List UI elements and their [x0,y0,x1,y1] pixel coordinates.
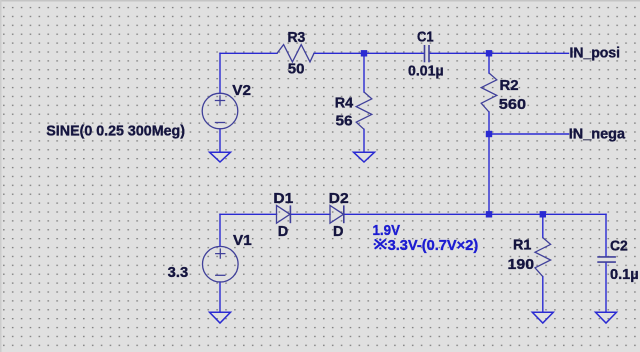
svg-text:SINE(0 0.25 300Meg): SINE(0 0.25 300Meg) [46,123,185,139]
wire IN_nega [489,133,569,135]
wire D1 cathode to D2 anode [290,213,330,215]
svg-text:C1: C1 [417,29,434,45]
svg-text:50: 50 [288,62,305,78]
wire R2 top lead [488,53,490,73]
svg-text:V1: V1 [233,233,252,249]
node junction IN_nega at R2 bottom [486,131,492,137]
wire R1 bottom lead to ground [542,277,544,312]
wire V1 top lead [219,214,221,246]
capacitor C2 plates [597,256,616,258]
ground below V1 [210,312,231,323]
V2 minus sign [215,122,225,124]
wire D2 cathode to C2 corner [344,213,606,215]
diode D1 cathode bar [289,205,291,223]
wire R4 bottom lead to ground [363,129,365,152]
capacitor C1 plates [424,45,426,62]
svg-text:R1: R1 [513,238,531,254]
node junction on top wire at R2 [486,50,492,56]
ground below V2 [210,152,231,162]
svg-text:D1: D1 [273,191,293,207]
ground below C2 [596,312,617,323]
svg-text:0.01µ: 0.01µ [408,64,444,80]
svg-text:190: 190 [508,257,535,273]
svg-text:1.9V: 1.9V [373,223,401,239]
wire V2 top to R3 [220,52,277,54]
resistor R1 zigzag [535,238,551,277]
resistor R4 zigzag [356,92,372,129]
V2 plus sign [215,95,225,105]
svg-text:IN_nega: IN_nega [569,127,626,143]
svg-text:R2: R2 [500,78,519,94]
wire V2 bottom lead to ground [219,129,221,153]
svg-text:560: 560 [499,97,526,113]
wire C1 right plate to IN_posi [430,52,569,54]
svg-text:C2: C2 [610,238,628,254]
svg-text:3.3: 3.3 [168,265,189,281]
svg-text:56: 56 [336,114,353,130]
svg-text:3.3V-(0.7V×2): 3.3V-(0.7V×2) [388,238,479,254]
resistor R2 zigzag [481,73,497,112]
svg-text:R3: R3 [288,30,306,46]
svg-text:D: D [333,224,343,240]
resistor R3 zigzag [277,45,314,62]
voltage source V1 circle [203,246,239,282]
wire V1 bottom lead to ground [219,282,221,312]
V1 plus sign [215,248,225,258]
reference mark (kome) drawn as shape [374,239,387,250]
V1 minus sign [215,274,225,276]
diode D2 triangle [330,205,344,223]
svg-text:D2: D2 [329,191,349,207]
wire R4 top lead [363,53,365,92]
diode D1 triangle [277,205,291,223]
ground below R1 [532,312,553,323]
wire V2 top lead [219,53,221,93]
wire node IN_nega down to bottom rail [488,134,490,214]
svg-text:V2: V2 [232,83,251,99]
wire R3 to C1 left plate [314,52,424,54]
svg-text:D: D [278,224,288,240]
node junction on top wire at R4 [361,50,367,56]
wire R2 bottom lead [488,112,490,134]
svg-text:IN_posi: IN_posi [570,45,621,61]
voltage source V2 circle [202,93,238,129]
diode D2 cathode bar [343,205,345,223]
svg-text:0.1µ: 0.1µ [610,267,639,283]
wire C2 top lead [605,214,607,256]
ground below R4 [354,152,375,162]
wire R1 top lead [542,214,544,237]
wire C2 bottom lead to ground [605,262,607,312]
wire V1 to D1 anode [220,213,277,215]
svg-text:R4: R4 [335,95,353,111]
node junction bottom rail at vertical wire [486,211,492,217]
node junction bottom rail at R1 [540,211,546,217]
